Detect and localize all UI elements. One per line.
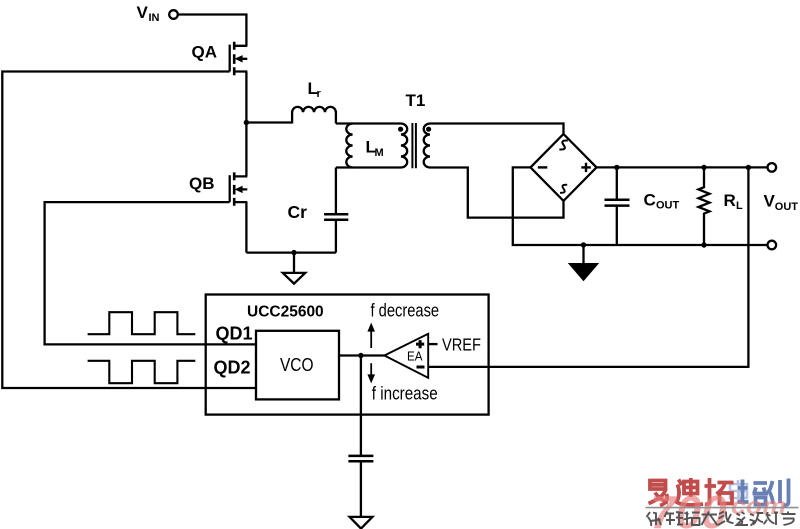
- svg-text:OUT: OUT: [775, 201, 799, 213]
- watermark red character tuo: [705, 478, 734, 504]
- svg-text:V: V: [137, 3, 149, 22]
- rectifier ac squiggle top: [559, 140, 567, 149]
- wire Cr bottom lead: [335, 220, 337, 253]
- svg-text:VREF: VREF: [442, 335, 481, 355]
- node feedback top junction: [746, 165, 751, 170]
- svg-text:Cr: Cr: [288, 202, 308, 222]
- node output ground junction: [581, 242, 586, 247]
- node ground junction: [291, 250, 296, 255]
- arrow f increase (down): [370, 363, 372, 374]
- wire bridge left corner to bottom rail: [513, 167, 768, 245]
- svg-text:QD2: QD2: [214, 358, 251, 378]
- node COUT top junction: [614, 165, 619, 170]
- rectifier bridge diamond: [531, 134, 597, 201]
- node VCO output junction: [358, 353, 363, 358]
- resistor RL: [699, 167, 710, 245]
- UCC25600 block: [206, 295, 489, 415]
- svg-text:L: L: [736, 200, 743, 212]
- watermark red character yi: [649, 481, 669, 506]
- watermark red character di: [677, 478, 704, 505]
- svg-text:f increase: f increase: [372, 383, 438, 403]
- svg-text:OUT: OUT: [656, 200, 680, 212]
- svg-text:EA: EA: [407, 349, 423, 363]
- wire QB source to Cr bottom: [246, 251, 336, 253]
- transistor QA: [230, 42, 248, 75]
- capacitor Cr: [324, 214, 348, 219]
- rectifier plus mark: [581, 163, 591, 172]
- wire junction down to soft-start capacitor: [360, 356, 362, 456]
- inductor Lr: [292, 107, 336, 124]
- watermark divider line: [646, 507, 799, 509]
- capacitor COUT: [605, 200, 630, 206]
- svg-text:f decrease: f decrease: [371, 300, 440, 320]
- node phase dot primary: [398, 127, 403, 132]
- EA plus mark: [416, 340, 424, 348]
- watermark faint blue back character: [730, 480, 748, 502]
- wire capacitor to ground: [360, 461, 362, 517]
- wire COUT leads: [616, 167, 618, 245]
- op-amp EA: [384, 334, 428, 378]
- watermark blue character xun: [769, 479, 789, 506]
- waveform QD2: [88, 361, 196, 383]
- svg-text:V: V: [764, 192, 776, 211]
- wire top rail: [597, 166, 768, 168]
- rectifier minus mark: [538, 166, 548, 168]
- inductor LM (magnetizing): [346, 124, 352, 168]
- svg-text:C: C: [644, 191, 656, 210]
- ground output (solid): [582, 245, 584, 264]
- node VOUT- terminal: [768, 241, 777, 250]
- svg-text:R: R: [724, 191, 736, 210]
- capacitor C soft-start: [348, 456, 373, 461]
- svg-text:QB: QB: [189, 174, 215, 193]
- svg-text:VCO: VCO: [280, 355, 314, 375]
- wire QA gate to QD2 row (feedback): [2, 72, 256, 389]
- wire top + transformer T1 primary winding + wire bottom: [336, 124, 407, 168]
- wire feedback from output to EA inverting input: [428, 167, 748, 367]
- transformer T1 core: [412, 123, 416, 168]
- svg-text:QD1: QD1: [216, 324, 253, 344]
- svg-text:IN: IN: [149, 12, 160, 24]
- node RL top junction: [701, 165, 706, 170]
- ground soft-start (open): [350, 517, 373, 529]
- EA minus mark: [417, 366, 425, 369]
- wire VIN to QA drain: [178, 15, 246, 46]
- VCO box: [256, 331, 339, 400]
- rectifier ac squiggle bottom: [560, 185, 567, 193]
- node RL bottom junction: [701, 242, 706, 247]
- watermark blue character pei: [738, 480, 769, 505]
- node VOUT+ terminal: [768, 163, 777, 172]
- watermark: [646, 478, 799, 529]
- watermark gray slogan row: [647, 512, 796, 527]
- svg-text:r: r: [317, 88, 322, 100]
- svg-text:M: M: [375, 147, 384, 159]
- wire QB gate to QD1 row (feedback): [45, 202, 256, 344]
- node phase dot secondary: [426, 127, 431, 132]
- waveform QD1: [88, 312, 196, 334]
- wire VCO output to EA: [339, 354, 385, 356]
- wire Cr top lead: [335, 168, 337, 215]
- wire VREF stub: [428, 343, 437, 345]
- transistor QB: [230, 172, 248, 205]
- ground primary (open): [293, 253, 295, 273]
- wire QB source down: [245, 202, 247, 253]
- node VIN terminal: [169, 10, 178, 19]
- svg-text:UCC25600: UCC25600: [247, 303, 324, 320]
- svg-text:QA: QA: [192, 43, 218, 62]
- wire node to Lr: [246, 121, 292, 123]
- wire half-bridge node QA source to QB drain: [245, 72, 247, 177]
- svg-text:T1: T1: [406, 91, 426, 110]
- transformer T1 secondary winding + wires to bridge: [424, 124, 564, 218]
- arrow f decrease (up): [370, 331, 372, 348]
- node switch junction: [244, 120, 249, 125]
